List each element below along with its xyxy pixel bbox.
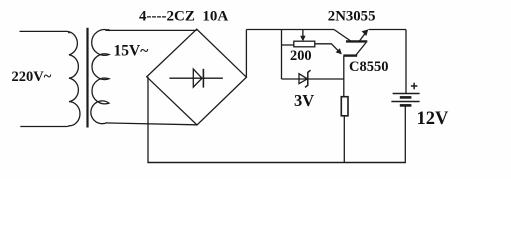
- svg-text:3V: 3V: [294, 91, 314, 110]
- svg-text:C8550: C8550: [349, 59, 388, 75]
- svg-text:2N3055: 2N3055: [328, 9, 376, 25]
- svg-text:4----2CZ 10A: 4----2CZ 10A: [139, 8, 228, 24]
- svg-text:15V~: 15V~: [114, 42, 149, 59]
- svg-text:220V~: 220V~: [12, 69, 52, 85]
- svg-text:12V: 12V: [417, 109, 450, 129]
- svg-text:200: 200: [290, 48, 312, 64]
